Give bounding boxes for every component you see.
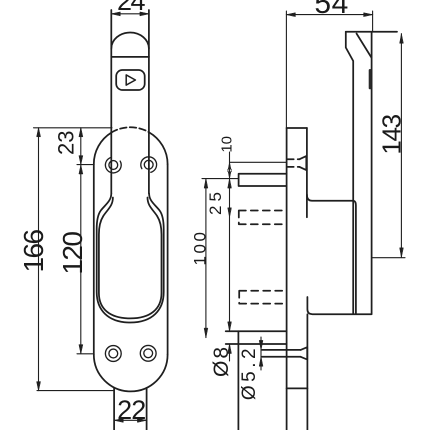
handle body left edge <box>110 10 112 194</box>
svg-text:Ø8: Ø8 <box>210 345 233 377</box>
plate dome right arc <box>149 132 168 164</box>
dim 23 arrows <box>79 128 83 165</box>
side top edge <box>346 31 397 33</box>
pin A (solid) <box>239 174 287 186</box>
body top dome cap <box>111 33 149 49</box>
plate left side <box>93 164 95 354</box>
ext line lower hole centre <box>77 353 93 355</box>
svg-text:120: 120 <box>57 232 88 275</box>
dim 54 left extension <box>285 11 287 128</box>
dim 24 arrows <box>111 12 149 16</box>
svg-text:166: 166 <box>18 230 49 273</box>
dim 166 line <box>38 128 40 391</box>
plate bottom arc <box>94 355 168 392</box>
lower left screw hole <box>105 346 121 362</box>
dim 143 bottom extension <box>372 257 405 259</box>
dim 120 arrows <box>79 165 83 354</box>
bottom tab left edge <box>113 388 115 430</box>
svg-text:143: 143 <box>377 114 407 154</box>
bottom tab right edge <box>146 388 148 430</box>
neck underside <box>307 195 356 314</box>
dim 166 arrows <box>37 128 41 391</box>
svg-text:100: 100 <box>191 230 210 266</box>
pin D end / bottom extension line <box>237 331 239 430</box>
dim 54 arrows <box>286 13 372 17</box>
button side bar <box>369 69 372 89</box>
pin C (dashed alternative) <box>239 291 286 304</box>
plate right side <box>167 164 169 354</box>
upper left screw hole <box>103 154 125 176</box>
dim phi5.2 arrows <box>259 340 263 366</box>
arrows on column x229.5 <box>228 162 232 353</box>
pin A centre extension <box>202 178 238 180</box>
hole centre line upper <box>230 161 287 163</box>
dim 143 line <box>400 34 402 258</box>
ext line upper hole centre <box>77 164 93 166</box>
pin D (solid) <box>226 331 287 344</box>
tab back edge lower <box>306 314 308 430</box>
lower countersink cone <box>301 347 308 359</box>
upper right screw hole <box>138 154 160 176</box>
plate dome hidden middle (dashed) <box>111 127 149 132</box>
lower countersink hole lines <box>262 350 301 357</box>
svg-text:23: 23 <box>54 130 79 154</box>
dim 22 line <box>114 419 146 421</box>
ext line bottom of plate <box>37 390 114 392</box>
dim 100 arrows <box>204 179 208 338</box>
dim 22 arrows <box>114 418 146 422</box>
plate boss back edge <box>306 128 308 217</box>
dome silhouette diagonal <box>357 34 372 58</box>
svg-text:25: 25 <box>206 188 225 215</box>
svg-text:22: 22 <box>117 395 145 425</box>
pin B (dashed alternative) <box>239 211 287 225</box>
upper countersink cone <box>300 156 307 170</box>
dim column line (10/25/100 area) <box>229 152 231 331</box>
plate bottom step <box>287 387 308 389</box>
grip bottom edge <box>307 297 371 314</box>
dim 23 line <box>80 128 82 165</box>
dim 143 arrows <box>400 34 404 257</box>
button triangle mark <box>126 75 135 85</box>
dim 54 line <box>286 14 372 16</box>
dim 54 right extension <box>372 11 374 32</box>
upper countersink hidden hole (dashed) <box>288 159 300 167</box>
body dome base line <box>111 56 149 58</box>
svg-text:10: 10 <box>219 136 236 153</box>
svg-text:54: 54 <box>314 0 348 20</box>
svg-text:24: 24 <box>117 0 146 16</box>
push button outline <box>116 70 145 90</box>
side front edge <box>371 32 373 314</box>
lower right screw hole <box>140 345 156 361</box>
plate front edge <box>286 128 288 430</box>
plate top edge <box>287 127 307 129</box>
short phi8 line below <box>229 344 231 361</box>
dim 120 line <box>80 165 82 354</box>
ext line top of plate <box>34 127 113 129</box>
dim phi5.2 line <box>260 337 262 370</box>
dim 24 line <box>111 13 149 15</box>
grip cutout outer contour <box>97 194 164 323</box>
svg-text:Ø5.2: Ø5.2 <box>239 345 260 400</box>
handle body right edge <box>148 10 150 194</box>
side top-left corner and upper back edge <box>346 32 353 314</box>
plate dome left arc <box>94 133 112 165</box>
dim 100 line <box>205 179 207 338</box>
grip cutout inner contour <box>99 198 162 319</box>
